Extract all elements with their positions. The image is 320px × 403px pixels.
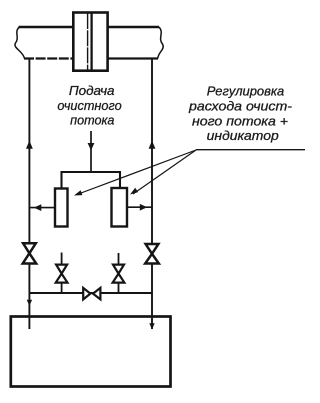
valve inner-left stem — [61, 253, 63, 294]
filter block inner partition thin line — [87, 13, 89, 70]
filter block body — [73, 13, 107, 71]
distribution manifold — [62, 172, 121, 189]
svg-text:индикатор: индикатор — [207, 128, 279, 143]
tank — [11, 317, 171, 387]
left riser pipe — [28, 59, 30, 330]
right outlet arrow — [140, 204, 147, 211]
valve inner-left body — [56, 265, 68, 283]
svg-text:Подача: Подача — [69, 83, 115, 98]
left outlet arrow — [34, 204, 42, 211]
duct top edge right segment — [108, 26, 160, 28]
rotameter right — [112, 188, 128, 227]
duct bottom edge right segment — [108, 57, 159, 59]
svg-text:расхода очист-: расхода очист- — [188, 98, 293, 113]
leader arrowhead at right rotameter — [130, 188, 138, 195]
leader line to left rotameter — [77, 150, 196, 195]
left riser up arrow — [26, 141, 33, 149]
centre feed line — [90, 131, 92, 172]
svg-text:Регулировка: Регулировка — [207, 83, 285, 98]
label: supply of purge flow — [57, 83, 121, 128]
svg-text:потока: потока — [70, 113, 114, 128]
left riser entry arrow into tank — [27, 300, 32, 306]
valve inner-right body — [113, 265, 125, 283]
break line right — [158, 27, 163, 59]
leader arrowhead at left rotameter — [74, 190, 82, 195]
valve inner-right stem — [118, 253, 120, 293]
valve outer-left — [23, 243, 37, 263]
centre feed down arrow — [88, 143, 95, 151]
right riser pipe — [151, 59, 153, 330]
duct bottom edge left segment — [24, 57, 73, 59]
duct top edge left segment — [19, 26, 74, 28]
leader underline — [196, 149, 305, 151]
leader line to right rotameter — [133, 150, 196, 194]
valve horizontal body — [83, 288, 100, 300]
svg-text:ного потока +: ного потока + — [192, 113, 288, 128]
break line left — [15, 27, 25, 59]
label: purge flow regulation + indicator — [188, 83, 293, 143]
right riser entry arrow into tank — [149, 323, 154, 329]
right riser up arrow — [149, 141, 156, 149]
valve outer-right — [145, 244, 159, 264]
left rotameter outlet line — [29, 207, 55, 209]
filter block inner partition thick line — [90, 13, 92, 70]
rotameter left — [55, 189, 68, 227]
svg-text:очистного: очистного — [57, 98, 121, 113]
right rotameter outlet line — [127, 206, 152, 208]
bottom manifold line — [29, 292, 152, 294]
